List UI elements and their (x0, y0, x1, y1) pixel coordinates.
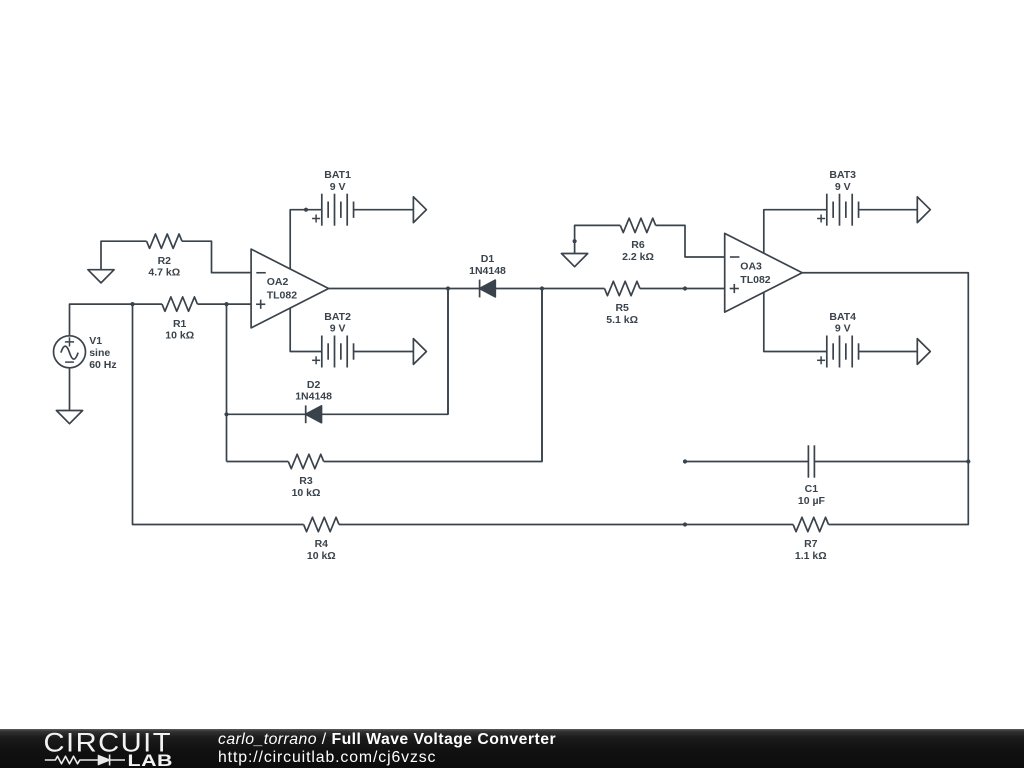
svg-text:60 Hz: 60 Hz (89, 359, 116, 371)
svg-text:OA2: OA2 (267, 276, 289, 288)
svg-text:D2: D2 (307, 379, 321, 391)
svg-text:R6: R6 (631, 239, 645, 251)
svg-text:V1: V1 (89, 335, 102, 347)
svg-text:R2: R2 (158, 255, 172, 267)
svg-text:R1: R1 (173, 318, 187, 330)
svg-text:LAB: LAB (128, 751, 174, 768)
svg-text:R4: R4 (315, 538, 329, 550)
svg-text:TL082: TL082 (740, 274, 771, 286)
svg-text:R7: R7 (804, 538, 818, 550)
svg-text:R5: R5 (615, 302, 629, 314)
svg-text:TL082: TL082 (267, 290, 298, 302)
svg-text:10 µF: 10 µF (798, 495, 826, 507)
svg-text:1.1 kΩ: 1.1 kΩ (795, 550, 827, 562)
svg-text:BAT3: BAT3 (829, 169, 856, 181)
svg-text:BAT4: BAT4 (829, 311, 856, 323)
svg-text:10 kΩ: 10 kΩ (307, 550, 336, 562)
svg-text:9 V: 9 V (330, 323, 346, 335)
svg-text:9 V: 9 V (835, 323, 851, 335)
svg-text:C1: C1 (805, 483, 819, 495)
svg-text:http://circuitlab.com/cj6vzsc: http://circuitlab.com/cj6vzsc (218, 749, 436, 766)
svg-text:5.1 kΩ: 5.1 kΩ (606, 314, 638, 326)
svg-text:carlo_torrano / Full Wave Volt: carlo_torrano / Full Wave Voltage Conver… (218, 730, 556, 747)
svg-text:2.2 kΩ: 2.2 kΩ (622, 251, 654, 263)
svg-text:9 V: 9 V (835, 181, 851, 193)
svg-text:4.7 kΩ: 4.7 kΩ (148, 267, 180, 279)
svg-text:10 kΩ: 10 kΩ (165, 330, 194, 342)
svg-text:OA3: OA3 (740, 260, 762, 272)
svg-text:BAT1: BAT1 (324, 169, 351, 181)
svg-text:1N4148: 1N4148 (469, 265, 506, 277)
svg-text:10 kΩ: 10 kΩ (292, 487, 321, 499)
svg-text:sine: sine (89, 347, 110, 359)
svg-text:1N4148: 1N4148 (295, 391, 332, 403)
svg-text:9 V: 9 V (330, 181, 346, 193)
svg-text:BAT2: BAT2 (324, 311, 351, 323)
svg-text:R3: R3 (299, 475, 313, 487)
svg-text:D1: D1 (481, 253, 495, 265)
